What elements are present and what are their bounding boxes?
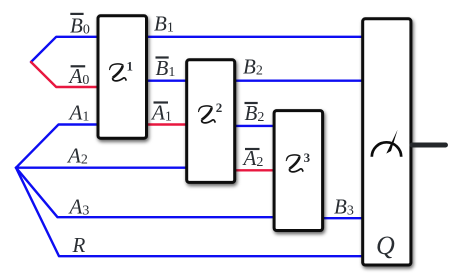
label L2 xyxy=(199,106,216,123)
meter symbol needle xyxy=(386,130,397,154)
label L3 xyxy=(286,155,303,172)
wire B0bar (blue, fan to L1) xyxy=(31,37,99,62)
wire B2 (blue, L2 to meter block) xyxy=(234,79,364,81)
wire R (blue, fan to meter block) xyxy=(16,168,364,257)
output stub xyxy=(412,143,446,148)
wire B1 (blue, L1 to meter block) xyxy=(146,36,364,38)
meter symbol arc xyxy=(372,142,401,157)
wire B2bar (blue, L2 to L3) xyxy=(234,125,275,127)
label L1 xyxy=(110,64,127,81)
wire A1 (blue, fan to L1) xyxy=(16,125,99,168)
wire A0bar (red, fan to L1) xyxy=(31,62,99,87)
svg-text:2: 2 xyxy=(216,100,223,115)
node: lower input fan vertex xyxy=(15,167,17,169)
wire A2 (blue, fan to L2) xyxy=(16,166,188,168)
svg-text:1: 1 xyxy=(127,58,134,73)
wire A2bar (red, L2 to L3) xyxy=(234,169,275,171)
block L2 xyxy=(187,60,235,183)
svg-text:3: 3 xyxy=(304,150,311,165)
block U1 meter xyxy=(363,19,411,265)
node: upper input fan vertex xyxy=(30,61,32,63)
block L3 xyxy=(274,111,323,231)
wire A3 (blue, fan to L3) xyxy=(16,168,275,218)
wire B3 (blue, L3 to meter block) xyxy=(322,217,364,219)
block L1 xyxy=(98,16,147,138)
svg-text:R: R xyxy=(72,233,86,257)
wire A1bar (red, L1 to L2) xyxy=(146,123,188,125)
svg-text:Q: Q xyxy=(376,231,395,260)
wire B1bar (blue, L1 to L2) xyxy=(146,79,188,81)
